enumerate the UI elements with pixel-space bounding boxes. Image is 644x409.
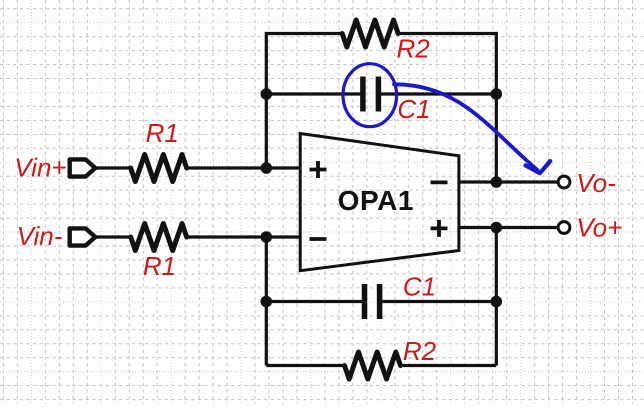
svg-text:Vo-: Vo- bbox=[576, 168, 616, 198]
svg-text:OPA1: OPA1 bbox=[338, 185, 414, 216]
svg-text:R1: R1 bbox=[143, 251, 176, 281]
svg-text:R1: R1 bbox=[146, 118, 179, 148]
svg-text:R2: R2 bbox=[397, 34, 431, 64]
svg-text:C1: C1 bbox=[403, 271, 436, 301]
svg-text:Vin-: Vin- bbox=[17, 221, 63, 251]
svg-text:R2: R2 bbox=[403, 336, 437, 366]
svg-text:Vin+: Vin+ bbox=[14, 152, 66, 182]
svg-text:C1: C1 bbox=[397, 94, 430, 124]
svg-text:Vo+: Vo+ bbox=[576, 213, 622, 243]
